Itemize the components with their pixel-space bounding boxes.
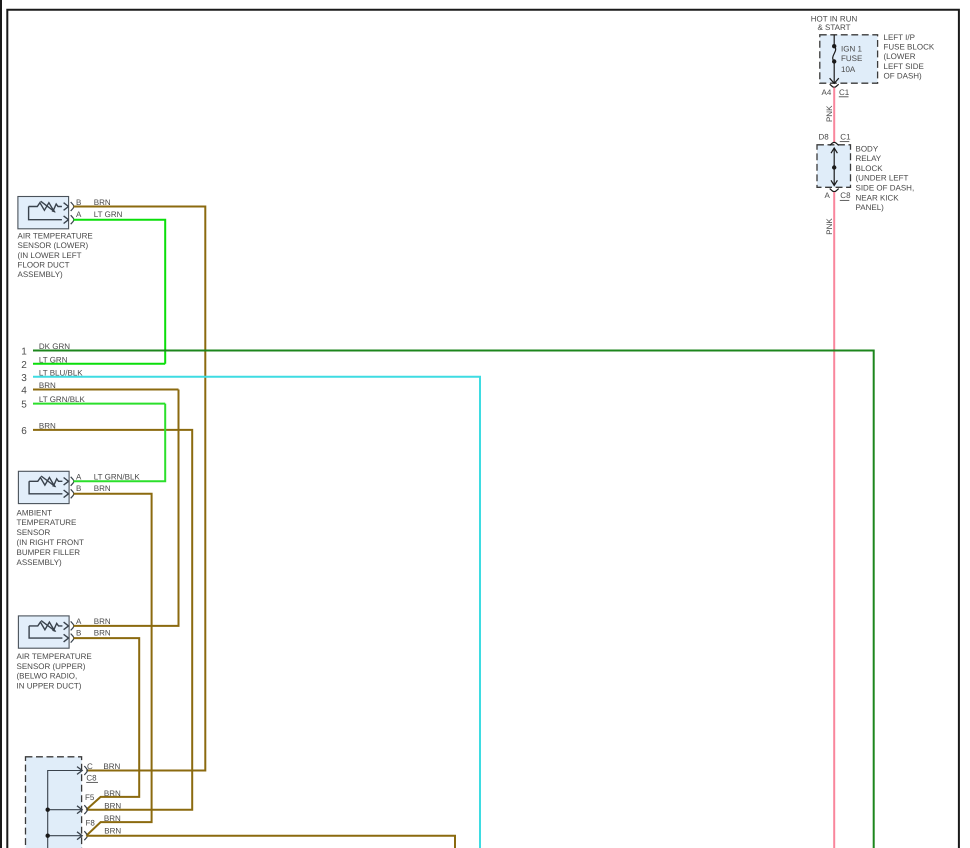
- svg-text:RELAY: RELAY: [856, 154, 882, 163]
- junction dot F5 branch: [46, 808, 50, 812]
- svg-text:AIR TEMPERATURE: AIR TEMPERATURE: [17, 652, 92, 661]
- svg-text:D8: D8: [819, 133, 830, 142]
- svg-text:BRN: BRN: [104, 814, 121, 823]
- svg-text:BRN: BRN: [94, 198, 111, 207]
- svg-text:C1: C1: [839, 88, 850, 97]
- svg-text:B: B: [76, 484, 81, 493]
- page border outer left line: [0, 0, 2, 848]
- svg-text:F5: F5: [85, 793, 95, 802]
- svg-text:FUSE BLOCK: FUSE BLOCK: [884, 43, 935, 52]
- svg-text:A4: A4: [822, 88, 832, 97]
- wire inside connector block: [48, 771, 82, 848]
- svg-text:LT GRN: LT GRN: [94, 210, 123, 219]
- wire BRN from pin F8 to bottom of page: [86, 836, 455, 848]
- svg-text:PANEL): PANEL): [856, 203, 885, 212]
- svg-text:BRN: BRN: [94, 617, 111, 626]
- svg-text:(IN LOWER LEFT: (IN LOWER LEFT: [18, 251, 82, 260]
- svg-text:(UNDER LEFT: (UNDER LEFT: [856, 174, 909, 183]
- svg-text:A: A: [76, 473, 82, 482]
- svg-text:SENSOR (LOWER): SENSOR (LOWER): [18, 241, 89, 250]
- wire 2 LT GRN: [33, 363, 165, 365]
- svg-text:BRN: BRN: [104, 826, 121, 835]
- svg-text:LT GRN/BLK: LT GRN/BLK: [94, 473, 141, 482]
- svg-text:BRN: BRN: [104, 801, 121, 810]
- svg-text:A: A: [825, 191, 831, 200]
- svg-text:PNK: PNK: [825, 105, 834, 122]
- fuse F IGN 1 10A symbol: [830, 35, 839, 84]
- connector block C8 box (bottom left): [26, 757, 82, 848]
- wire BRN from RT2 pin B down to connector C8 pin F8: [73, 494, 151, 836]
- svg-text:(LOWER: (LOWER: [884, 52, 916, 61]
- svg-text:AIR TEMPERATURE: AIR TEMPERATURE: [18, 232, 93, 241]
- svg-text:BODY: BODY: [856, 144, 879, 153]
- pin F5 arrow and cup: [77, 806, 82, 814]
- svg-text:& START: & START: [817, 23, 850, 32]
- body relay block box: [817, 145, 851, 188]
- wire inside relay block: [831, 148, 837, 186]
- svg-text:C8: C8: [840, 191, 851, 200]
- sensor RT3 AIR TEMPERATURE SENSOR (UPPER) box: [18, 616, 69, 648]
- svg-text:BRN: BRN: [103, 762, 120, 771]
- pin bracket B of RT1: [71, 202, 74, 211]
- svg-text:F8: F8: [86, 818, 96, 827]
- pin bracket B of RT3: [71, 634, 74, 643]
- sensor RT2 AMBIENT TEMPERATURE SENSOR box: [18, 471, 69, 503]
- wire 1 DK GRN to bottom right: [33, 351, 874, 848]
- svg-text:FLOOR DUCT: FLOOR DUCT: [18, 260, 70, 269]
- svg-text:BLOCK: BLOCK: [856, 164, 884, 173]
- svg-text:B: B: [76, 198, 81, 207]
- svg-text:SENSOR (UPPER): SENSOR (UPPER): [17, 662, 86, 671]
- svg-text:LEFT SIDE: LEFT SIDE: [884, 62, 924, 71]
- wire PNK from relay block to bottom of page: [833, 192, 835, 848]
- wire LT GRN from RT1 pin A to wire 2: [73, 220, 165, 364]
- svg-text:BUMPER FILLER: BUMPER FILLER: [17, 548, 81, 557]
- svg-text:B: B: [76, 629, 81, 638]
- wire 3 LT BLU/BLK to bottom: [33, 377, 480, 848]
- pin F8 arrow and cup: [77, 832, 82, 840]
- svg-text:BRN: BRN: [94, 629, 111, 638]
- svg-text:BRN: BRN: [104, 789, 121, 798]
- svg-text:BRN: BRN: [94, 484, 111, 493]
- svg-text:C: C: [87, 762, 93, 771]
- wire 6 BRN to connector C8 pin F5: [33, 430, 192, 810]
- svg-text:(IN RIGHT FRONT: (IN RIGHT FRONT: [17, 538, 85, 547]
- svg-text:PNK: PNK: [825, 218, 834, 235]
- pin C arrow and cup: [77, 767, 82, 775]
- svg-text:IGN 1: IGN 1: [841, 44, 862, 53]
- connector cup at relay block top: [830, 142, 839, 145]
- svg-text:A: A: [76, 617, 82, 626]
- svg-text:ASSEMBLY): ASSEMBLY): [17, 558, 63, 567]
- thermistor symbol in RT3: [29, 621, 68, 642]
- wire 5 LT GRN/BLK to RT2 pin A: [33, 403, 165, 405]
- wire BRN from RT1 pin B down to connector C8 pin C: [73, 207, 205, 771]
- svg-text:6: 6: [21, 426, 27, 437]
- svg-text:3: 3: [21, 373, 27, 384]
- svg-text:C1: C1: [840, 133, 851, 142]
- svg-text:1: 1: [21, 347, 27, 358]
- wire PNK from fuse block to body relay block: [833, 88, 835, 143]
- pin bracket B of RT2: [71, 489, 74, 498]
- connector cup at fuse block bottom: [830, 84, 839, 87]
- fuse block box (LEFT I/P FUSE BLOCK): [820, 35, 878, 83]
- svg-text:5: 5: [21, 400, 27, 411]
- svg-text:IN UPPER DUCT): IN UPPER DUCT): [17, 682, 82, 691]
- svg-text:2: 2: [21, 360, 27, 371]
- thermistor symbol in RT1: [29, 201, 69, 223]
- wire 4 BRN to RT3 pin A: [33, 389, 179, 391]
- svg-text:AMBIENT: AMBIENT: [17, 508, 53, 517]
- svg-text:A: A: [76, 210, 82, 219]
- thermistor symbol in RT2: [29, 476, 68, 498]
- svg-text:C8: C8: [86, 773, 97, 782]
- wire LT GRN/BLK from RT2 pin A up to wire 5: [73, 404, 165, 482]
- svg-text:OF DASH): OF DASH): [884, 71, 923, 80]
- svg-text:10A: 10A: [841, 65, 856, 74]
- connector cup at relay block bottom: [830, 189, 839, 192]
- svg-text:NEAR KICK: NEAR KICK: [856, 193, 900, 202]
- junction dot F8 branch: [46, 834, 50, 838]
- wire BRN from RT3 pin A up to wire 4: [73, 390, 178, 626]
- svg-text:SENSOR: SENSOR: [17, 528, 51, 537]
- svg-text:SIDE OF DASH,: SIDE OF DASH,: [856, 184, 915, 193]
- svg-text:(BELWO RADIO,: (BELWO RADIO,: [17, 672, 78, 681]
- pin bracket A of RT1: [71, 215, 74, 224]
- wire BRN from RT3 pin B down to connector C8 pin F5: [73, 638, 139, 810]
- junction dot in relay block: [832, 165, 836, 169]
- pin bracket A of RT2: [71, 477, 74, 486]
- svg-text:ASSEMBLY): ASSEMBLY): [18, 270, 64, 279]
- sensor RT1 AIR TEMPERATURE SENSOR (LOWER) box: [18, 197, 69, 229]
- pin bracket A of RT3: [71, 621, 74, 630]
- svg-text:TEMPERATURE: TEMPERATURE: [17, 518, 77, 527]
- svg-text:FUSE: FUSE: [841, 54, 862, 63]
- svg-text:4: 4: [21, 386, 27, 397]
- svg-text:LEFT I/P: LEFT I/P: [884, 33, 915, 42]
